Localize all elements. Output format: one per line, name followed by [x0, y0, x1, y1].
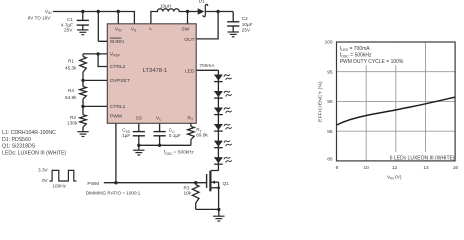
svg-text:0.1µF: 0.1µF: [169, 133, 181, 138]
svg-text:CTRL1: CTRL1: [110, 104, 126, 110]
svg-text:C2: C2: [242, 16, 248, 21]
svg-text:10: 10: [364, 165, 370, 171]
svg-text:8V TO 16V: 8V TO 16V: [28, 15, 51, 20]
svg-text:LT3478-1: LT3478-1: [143, 68, 168, 74]
svg-text:10k: 10k: [183, 191, 191, 196]
svg-text:PWM: PWM: [110, 114, 122, 120]
svg-text:VIN (V): VIN (V): [387, 174, 402, 180]
svg-text:25V: 25V: [64, 27, 73, 32]
svg-text:6 LEDs LUXEON III (WHITE): 6 LEDs LUXEON III (WHITE): [390, 155, 455, 161]
svg-text:PWM DUTY CYCLE = 100%: PWM DUTY CYCLE = 100%: [340, 59, 404, 65]
svg-text:12: 12: [392, 165, 398, 171]
svg-text:54.9k: 54.9k: [65, 95, 77, 100]
svg-text:SW: SW: [181, 26, 189, 32]
svg-text:OUT: OUT: [184, 37, 194, 43]
svg-text:90: 90: [327, 99, 333, 105]
svg-text:R2: R2: [70, 115, 76, 120]
svg-text:PWM: PWM: [87, 181, 99, 187]
svg-text:D1: PDS560: D1: PDS560: [2, 137, 31, 143]
svg-text:100Hz: 100Hz: [52, 184, 66, 189]
svg-text:3.3V: 3.3V: [38, 168, 49, 173]
svg-text:130k: 130k: [67, 121, 78, 126]
svg-text:LED: LED: [185, 69, 195, 75]
svg-text:DIMMING RATIO = 1000:1: DIMMING RATIO = 1000:1: [86, 190, 141, 195]
svg-text:LEDs: LUXEON III (WHITE): LEDs: LUXEON III (WHITE): [2, 150, 67, 156]
svg-text:700mA: 700mA: [199, 63, 215, 69]
svg-text:100: 100: [325, 40, 333, 46]
svg-text:L: L: [149, 26, 152, 32]
svg-text:L1: CDRH104R-100NC: L1: CDRH104R-100NC: [2, 130, 56, 136]
svg-text:Q1: Q1: [223, 181, 230, 186]
svg-text:85: 85: [327, 129, 333, 135]
svg-text:R1: R1: [68, 58, 74, 63]
svg-text:69.8k: 69.8k: [196, 133, 208, 138]
svg-text:Q1: Si2318DS: Q1: Si2318DS: [2, 143, 36, 149]
svg-text:14: 14: [423, 165, 429, 171]
svg-text:SS: SS: [136, 115, 143, 121]
svg-text:25V: 25V: [242, 27, 251, 32]
svg-text:45.3k: 45.3k: [65, 65, 77, 70]
svg-text:SHDN: SHDN: [110, 39, 124, 45]
svg-text:0V: 0V: [42, 178, 49, 183]
svg-text:1µF: 1µF: [122, 133, 130, 138]
svg-text:EFFICIENCY (%): EFFICIENCY (%): [318, 81, 324, 122]
svg-text:10µH: 10µH: [160, 3, 171, 8]
svg-text:10µF: 10µF: [242, 22, 253, 27]
svg-text:16: 16: [453, 165, 459, 171]
svg-text:CTRL2: CTRL2: [110, 64, 126, 70]
svg-text:OVPSET: OVPSET: [110, 78, 130, 84]
svg-text:95: 95: [327, 69, 333, 75]
svg-text:D1: D1: [199, 0, 205, 4]
svg-text:80: 80: [327, 156, 333, 162]
svg-text:R4: R4: [68, 88, 74, 93]
svg-text:8: 8: [336, 165, 339, 171]
svg-text:C1: C1: [67, 17, 73, 22]
